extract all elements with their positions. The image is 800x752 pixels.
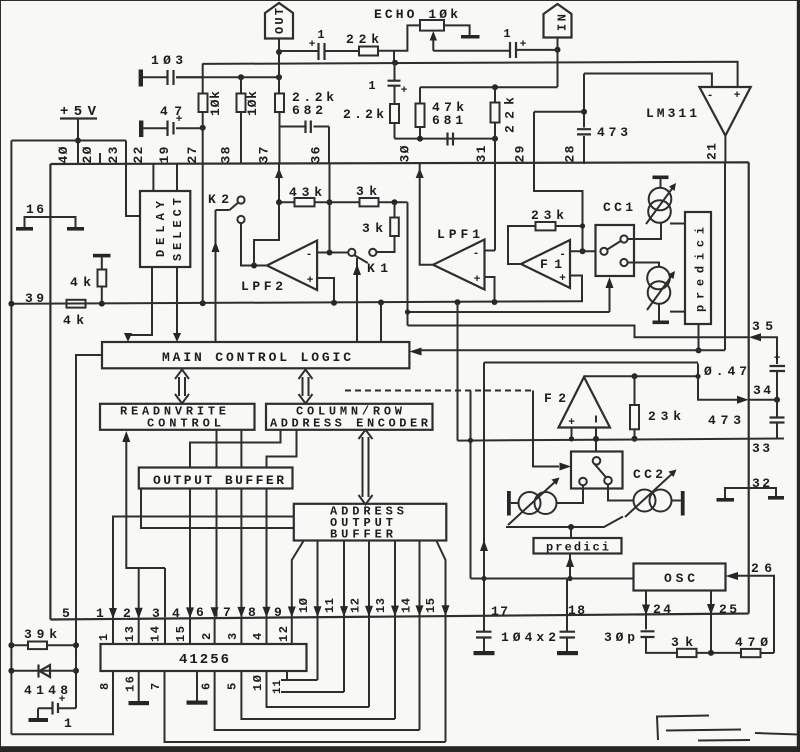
wire pin7 stub into 41256	[240, 618, 242, 644]
ground bar (pin17 cap)	[474, 651, 495, 655]
node 39k right	[73, 642, 79, 648]
svg-text:CC2: CC2	[633, 467, 663, 482]
wire in-cap leads	[517, 49, 556, 51]
svg-text:29: 29	[513, 145, 528, 162]
pin 37 direction arrow	[275, 168, 283, 178]
svg-text:11: 11	[272, 680, 284, 694]
wire control line y312	[408, 311, 610, 313]
arrow pin9 (down)	[288, 607, 296, 618]
node 47 cap / pin27 wire	[200, 125, 206, 131]
svg-text:1Ø4x2: 1Ø4x2	[501, 630, 556, 645]
svg-text:14: 14	[149, 626, 163, 642]
wire pin36 through 43k node	[329, 164, 331, 253]
svg-text:15: 15	[424, 598, 438, 613]
capacitor 30p	[641, 631, 655, 637]
wire F1 plus to rail	[570, 276, 582, 302]
resistor 4k (series in rail)	[67, 300, 86, 308]
wire pin26 to OSC	[737, 576, 774, 653]
wire 41256 pin8 loop (left)	[11, 671, 113, 734]
resistor 2.2k (vertical)	[390, 104, 399, 123]
arrow into OSC (left)	[726, 572, 739, 580]
svg-text:1: 1	[368, 79, 375, 93]
svg-text:5: 5	[62, 606, 70, 621]
svg-text:34: 34	[753, 383, 771, 398]
wire pin29 into F1 minus	[534, 164, 583, 251]
svg-text:OUTPUT BUFFER: OUTPUT BUFFER	[153, 473, 284, 488]
resistor 3k (osc)	[677, 649, 697, 657]
resistor 10k (second)	[237, 94, 246, 113]
op-amp F2	[559, 377, 611, 428]
svg-text:7: 7	[149, 683, 163, 690]
node CC2 common	[568, 524, 574, 530]
arrow pin34 (right, at box edge)	[737, 396, 749, 404]
node line B / OUT string	[276, 74, 282, 80]
wire LM311 output pin21	[724, 136, 726, 163]
arrow pin17 line (up)	[480, 540, 488, 551]
wire pin3 stub into 41256	[164, 619, 166, 645]
wire 41256 pin10 loop	[267, 671, 370, 707]
arrow pin7 (down)	[237, 607, 245, 618]
wire 3k node down long	[407, 202, 409, 325]
ground bar (16 left)	[16, 227, 33, 231]
wire CC2 common to predici2	[506, 517, 623, 528]
node IN junction	[555, 47, 561, 53]
wire LPF2 minus input	[317, 252, 348, 254]
wire pin36 drop	[328, 127, 330, 165]
svg-text:15: 15	[174, 626, 188, 642]
arrow pin24 (down)	[642, 605, 650, 616]
svg-text:+: +	[734, 90, 741, 102]
svg-text:473: 473	[708, 413, 741, 428]
current source CC2 right	[634, 490, 656, 512]
svg-text:13: 13	[374, 598, 388, 613]
node wiper on rail A	[392, 60, 398, 66]
node 22k2 bottom	[492, 136, 498, 142]
wire LPF1 minus to pin31	[485, 164, 496, 251]
node OUT junction	[276, 49, 282, 55]
terminal bar CC1 upper	[653, 176, 669, 180]
node rail to MCL drop	[378, 300, 384, 306]
bus arrow ENCODER-AOB	[359, 430, 373, 505]
svg-text:OUT: OUT	[273, 8, 287, 34]
node pin28/29	[581, 109, 587, 115]
capacitor 104 (pin17)	[476, 632, 492, 638]
svg-text:+: +	[307, 275, 314, 287]
arrow pin12 (down)	[365, 606, 373, 617]
switch box CC2	[571, 452, 623, 489]
svg-text:13: 13	[123, 626, 137, 642]
node pin17 / OSC lead	[481, 576, 486, 581]
switch box CC1	[596, 225, 635, 276]
svg-text:1Ø: 1Ø	[297, 598, 311, 613]
svg-text:2.2k: 2.2k	[343, 107, 384, 122]
bus arrow MCL-ENCODER	[299, 370, 313, 404]
terminal bar CC2 left	[507, 491, 511, 516]
arrow into predici2 (up)	[566, 556, 574, 567]
block COLUMN/ROW ADDRESS ENCODER	[266, 404, 433, 430]
svg-text:38: 38	[219, 146, 234, 163]
resistor 22k	[359, 47, 378, 56]
node F1 minus	[580, 248, 586, 254]
wire 22k to pot	[378, 25, 420, 50]
arrow pin1 (down)	[109, 608, 117, 619]
wire 2.2kv bottom	[394, 123, 396, 139]
capacitor 473 (right)	[770, 418, 785, 423]
svg-text:1Øk: 1Øk	[245, 91, 260, 116]
arrow K1 control (up)	[353, 264, 361, 275]
node 3k junction	[392, 199, 398, 205]
arrow pin35 (left, at box edge)	[749, 333, 761, 341]
svg-text:21: 21	[705, 143, 720, 160]
node predici / MCL line	[696, 347, 702, 353]
wire +5V stem to pin 40	[77, 119, 79, 165]
dashed wire (option link)	[345, 390, 533, 393]
svg-text:23k: 23k	[531, 208, 564, 223]
resistor 22k (input)	[491, 103, 500, 123]
diode 4148	[11, 670, 76, 672]
svg-text:6: 6	[200, 683, 214, 690]
wire pin27 down to rail	[202, 164, 204, 303]
wire F1 minus stub	[570, 250, 596, 252]
node 39k left	[8, 642, 14, 648]
svg-text:37: 37	[257, 147, 272, 164]
ground bar (pin18 cap)	[557, 651, 578, 655]
block OSC	[634, 564, 726, 591]
svg-text:LM311: LM311	[646, 106, 697, 121]
svg-text:39k: 39k	[24, 627, 57, 642]
wire pin6 stub into 41256	[214, 618, 216, 644]
node osc divider	[708, 650, 714, 656]
wire bias line y87	[420, 86, 558, 88]
svg-text:22k: 22k	[346, 32, 379, 47]
svg-text:4: 4	[251, 633, 265, 640]
arrow pin15 (down)	[442, 605, 450, 616]
current source CC1 upper	[649, 188, 672, 211]
svg-text:28: 28	[563, 145, 578, 162]
svg-text:26: 26	[751, 561, 772, 576]
wire 10k1 leads (pin 27 string)	[202, 64, 204, 164]
wire AOB lead pin11	[343, 541, 345, 693]
svg-text:3k: 3k	[362, 221, 383, 236]
svg-text:23: 23	[106, 146, 121, 163]
block READ/WRITE CONTROL	[100, 404, 255, 430]
wire OSC out 25	[710, 591, 712, 653]
svg-text:+: +	[309, 39, 316, 51]
terminal bar CC2 right	[681, 491, 685, 516]
svg-text:1Øk: 1Øk	[208, 91, 223, 116]
wire IN down to bias line	[557, 50, 559, 87]
arrow pin11 (down)	[340, 606, 348, 617]
wire F2 minus to CC2 switch	[595, 428, 597, 452]
wire RW to OB verticals	[217, 430, 242, 468]
capacitor 47	[143, 127, 202, 129]
wire CC1 switch control	[609, 280, 611, 312]
wire 22k2 leads / pin31	[494, 87, 496, 164]
capacitor 103	[143, 76, 202, 78]
node rail left end	[8, 301, 14, 307]
node pin36 / LPF2 minus	[327, 250, 333, 256]
wire CC2 left to switch	[557, 485, 584, 503]
resistor 39k	[28, 642, 47, 650]
wire pin17 long vertical	[483, 363, 485, 616]
arrow pin10 (down)	[314, 606, 322, 617]
capacitor 47 terminal bar	[139, 121, 143, 138]
node 4k / rail	[99, 301, 105, 307]
terminal bar 4k top	[93, 254, 111, 258]
wire to LM311 minus	[584, 74, 712, 88]
svg-text:-: -	[707, 90, 714, 102]
svg-text:12: 12	[349, 598, 363, 613]
wire +5V rail	[11, 140, 126, 142]
arrow pin14 (down)	[416, 605, 424, 616]
resistor 43k	[295, 198, 315, 206]
ground (cap 1)	[37, 708, 39, 718]
terminal IN	[544, 4, 572, 38]
wire 473 to 33 rail	[776, 400, 778, 439]
node 47k bottom	[417, 136, 423, 142]
svg-text:predici: predici	[546, 541, 609, 555]
arrow into MCL (delay a)	[124, 333, 132, 342]
svg-text:14: 14	[400, 598, 414, 613]
wire RW control input from below	[126, 440, 165, 568]
svg-text:+: +	[59, 694, 66, 706]
svg-text:17: 17	[491, 604, 508, 619]
wire IN stem	[557, 38, 559, 50]
svg-text:47Ø: 47Ø	[735, 635, 768, 650]
resistor 3k (vertical)	[390, 218, 399, 237]
capacitor 1 (series, out)	[319, 43, 325, 60]
wire pin18 cap leads	[566, 616, 568, 651]
wire rail riser to 33 rail	[457, 302, 459, 440]
wire pin28/473 node	[583, 74, 585, 165]
svg-text:4: 4	[172, 606, 180, 621]
wire 3k to node	[697, 652, 742, 654]
svg-text:K1: K1	[367, 261, 388, 276]
wire F2 output line	[584, 375, 698, 377]
wire LPF2 plus input	[317, 278, 334, 303]
svg-text:1: 1	[96, 606, 104, 621]
wire predici2 bottom / pin18	[567, 554, 570, 616]
scan border right	[797, 0, 800, 752]
svg-text:8: 8	[248, 605, 256, 620]
arrow pin8 (down)	[263, 607, 271, 618]
wire pin3 drop	[164, 568, 166, 617]
wire 41256 pin7 loop	[165, 671, 446, 742]
wire AOB stub to pin1	[113, 517, 294, 618]
wire 33 rail	[458, 439, 785, 441]
ground bar (41256 mid)	[187, 701, 208, 705]
wire OB outputs to pins 4,6,7,8	[190, 489, 267, 618]
block OUTPUT BUFFER	[139, 468, 293, 489]
wire F1 feedback loop	[508, 226, 583, 264]
resistor 47k 681	[416, 104, 425, 128]
wire OUT stem	[278, 39, 280, 53]
wire pin2 drop	[138, 568, 140, 617]
wire AOB lead pin14	[419, 541, 421, 731]
svg-text:+: +	[568, 417, 575, 429]
svg-text:4k: 4k	[70, 275, 91, 290]
svg-text:7: 7	[223, 605, 231, 620]
svg-text:+: +	[176, 114, 183, 126]
wire 23k2 leads	[634, 376, 636, 439]
block MAIN CONTROL LOGIC	[102, 342, 409, 368]
wire wiper to in-cap	[433, 50, 509, 52]
svg-text:ADDRESS ENCODER: ADDRESS ENCODER	[270, 417, 429, 431]
wire pin35 line	[408, 326, 749, 338]
svg-text:2: 2	[200, 633, 214, 640]
svg-text:16: 16	[124, 676, 138, 692]
svg-text:23k: 23k	[648, 409, 681, 424]
wire OSC out 24	[645, 591, 647, 630]
wire AOB lead pin12	[368, 541, 370, 708]
svg-text:43k: 43k	[289, 185, 322, 200]
wire 41256 pin5 loop	[241, 671, 395, 719]
wire 470 to pin26 riser	[761, 652, 775, 654]
op-amp F1	[521, 240, 570, 288]
wire pin23 feed down to delay select	[126, 141, 140, 217]
svg-text:+: +	[559, 273, 566, 285]
resistor 470	[741, 649, 761, 657]
node 4148 left	[8, 668, 14, 674]
ground (pot)	[461, 35, 480, 39]
svg-text:4Ø: 4Ø	[56, 146, 71, 163]
wire pin9 stub into 41256	[291, 617, 293, 644]
wire pin2 stub into 41256	[138, 619, 140, 644]
svg-text:OUTPUT: OUTPUT	[330, 516, 393, 530]
scan scribbles bottom right	[656, 716, 799, 749]
wire pot right to ground	[444, 25, 470, 35]
node F2 plus / rail	[569, 436, 574, 441]
wire 0.47 to pin34 node	[776, 371, 778, 400]
node LPF2 output/feedback	[251, 263, 257, 269]
wire rail A (wiper to LM311 +)	[202, 62, 737, 87]
node pin37 / 43k	[276, 199, 282, 205]
node 23k2 top	[632, 373, 638, 379]
svg-text:11: 11	[323, 598, 337, 613]
node line B / 10k2	[238, 74, 244, 80]
wire CC2 right to switch	[608, 484, 634, 500]
wire rail drop to MCL	[380, 303, 382, 343]
svg-text:3k: 3k	[671, 635, 693, 650]
memory chip 41256	[101, 644, 307, 671]
svg-text:1: 1	[64, 716, 72, 731]
wire tick1 to pin10 riser	[291, 679, 318, 681]
svg-text:SELECT: SELECT	[171, 198, 185, 261]
wire pin22 to delay select	[152, 164, 154, 191]
wire pin35 external to 0.47	[759, 337, 777, 364]
svg-text:12: 12	[277, 626, 291, 642]
wire 41256 ground stub 2	[196, 671, 198, 701]
node 23k / minus line	[580, 223, 585, 228]
node pin36 / 43k-3k	[327, 199, 333, 205]
current source CC2 left	[519, 492, 541, 514]
arrow pin25 (down)	[707, 604, 715, 615]
wire pin8 stub into 41256	[266, 618, 268, 644]
wire wiper node to cap1c to 2.2k	[394, 63, 396, 104]
wire OSC left lead	[471, 578, 634, 580]
svg-text:682: 682	[292, 103, 323, 118]
node control/3k line	[405, 309, 410, 314]
svg-text:6: 6	[196, 605, 204, 620]
capacitor 1 (above 2.2k vert)	[388, 81, 401, 86]
wire AOB lead pin15 (slant)	[436, 541, 445, 743]
ground bar (41256 pin16)	[129, 701, 150, 705]
wire F2 plus lead	[571, 428, 573, 439]
svg-text:33: 33	[752, 441, 770, 456]
wire AOB lead pin13	[394, 541, 396, 720]
svg-text:1Ø3: 1Ø3	[151, 53, 183, 68]
svg-text:3: 3	[226, 633, 240, 640]
svg-text:DELAY: DELAY	[154, 200, 168, 257]
wire K2 to LPF2 output	[241, 223, 267, 265]
arrow pin4 (down)	[186, 607, 194, 618]
capacitor 1 (series, in)	[510, 42, 516, 58]
node 33 rail / pin17 crossing	[468, 438, 473, 443]
svg-text:CONTROL: CONTROL	[147, 417, 221, 431]
svg-text:-: -	[473, 248, 480, 260]
node F2 minus / rail	[593, 436, 599, 442]
wire switch to upper current source	[628, 222, 661, 239]
block DELAY SELECT	[140, 191, 190, 267]
svg-text:2Ø: 2Ø	[80, 146, 95, 163]
svg-text:LPF1: LPF1	[437, 227, 480, 242]
wire 43k leads	[279, 201, 360, 203]
ground bar CC1 lower	[653, 321, 670, 325]
op-amp LM311	[699, 87, 750, 136]
wire MCL left to pin5 drop	[76, 355, 102, 619]
svg-text:1: 1	[97, 634, 111, 641]
wire pin29 to node	[534, 112, 584, 164]
wire 4k vertical leads	[101, 257, 103, 303]
svg-text:9: 9	[274, 605, 282, 620]
scan border bottom	[0, 746, 800, 752]
node pin34 external	[774, 397, 780, 403]
wire K2 common to control	[216, 210, 230, 342]
wire 47k top to bias line	[419, 87, 421, 138]
block predici (CC2)	[534, 538, 622, 554]
node 4148 right	[73, 668, 79, 674]
svg-text:22: 22	[131, 146, 146, 163]
node +5V rail	[75, 138, 81, 144]
wire CC2 select line y363	[484, 362, 698, 364]
svg-text:3Ø: 3Ø	[398, 145, 413, 162]
wire OB left lead to AOB	[141, 489, 294, 529]
wire predici bottom to MCL line	[698, 324, 700, 350]
potentiometer ECHO 10k	[420, 20, 444, 31]
wire encoder to OB step b	[267, 430, 297, 468]
block ADDRESS OUTPUT BUFFER	[294, 504, 447, 541]
svg-text:8: 8	[98, 683, 112, 690]
svg-text:2: 2	[123, 606, 131, 621]
svg-text:LPF2: LPF2	[241, 279, 283, 294]
pin 16 bracket wire	[25, 217, 76, 227]
wire current sources to predici	[670, 224, 685, 312]
arrow into MCL right (left)	[409, 348, 421, 356]
arrow pin2 (down)	[135, 608, 143, 619]
capacitor 104 (pin18)	[560, 632, 576, 638]
capacitor 103 terminal bar	[139, 70, 143, 87]
arrow pin6 (down)	[211, 607, 219, 618]
bus arrow MCL-RW	[175, 370, 189, 404]
pin 32 ground pair	[725, 488, 776, 498]
node LPF2+/rail	[331, 300, 337, 306]
svg-text:1: 1	[317, 28, 324, 42]
wire 3kv leads	[376, 202, 394, 252]
svg-text:27: 27	[185, 147, 200, 164]
pot wiper arrow	[432, 40, 434, 51]
wire bottom bias y138.6	[395, 138, 496, 140]
svg-text:MAIN CONTROL LOGIC: MAIN CONTROL LOGIC	[162, 350, 351, 365]
